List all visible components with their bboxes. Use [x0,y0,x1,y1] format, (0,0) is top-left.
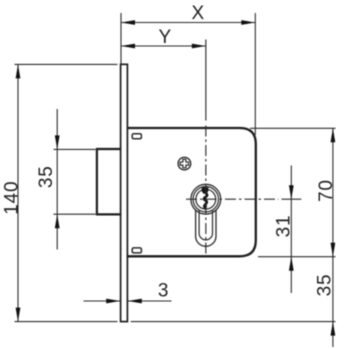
svg-text:140: 140 [2,181,23,215]
svg-text:3: 3 [158,281,169,302]
svg-text:Y: Y [158,27,171,48]
svg-text:35: 35 [36,165,57,188]
svg-text:70: 70 [316,179,337,202]
svg-text:X: X [192,3,205,24]
svg-text:35: 35 [315,274,336,297]
svg-text:31: 31 [274,215,295,238]
